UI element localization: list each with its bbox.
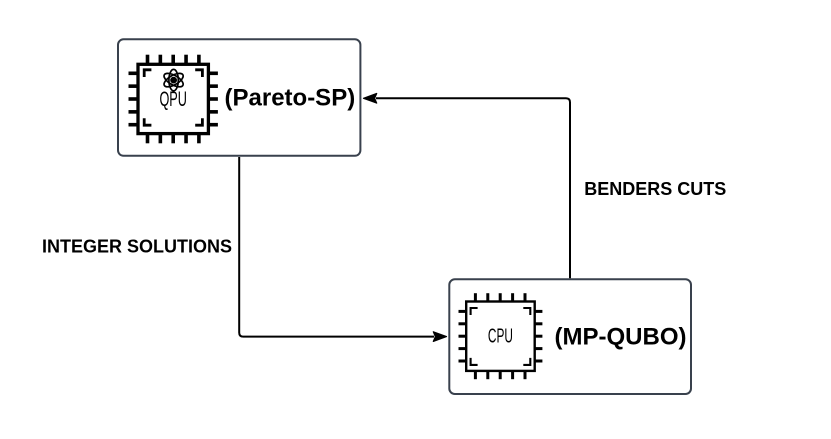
chip icon QPU (quantum processor U1) bbox=[129, 55, 218, 144]
svg-text:BENDERS CUTS: BENDERS CUTS bbox=[584, 179, 726, 199]
svg-text:QPU: QPU bbox=[159, 88, 187, 111]
svg-text:(Pareto-SP): (Pareto-SP) bbox=[225, 84, 356, 111]
svg-text:(MP-QUBO): (MP-QUBO) bbox=[555, 323, 687, 350]
svg-text:CPU: CPU bbox=[488, 326, 513, 348]
wire: benders cuts feedback (MP-QUBO top to Pareto-SP right) bbox=[364, 94, 571, 279]
svg-text:INTEGER SOLUTIONS: INTEGER SOLUTIONS bbox=[42, 237, 232, 257]
box Pareto-SP (QPU subproblem container) bbox=[118, 39, 360, 156]
box MP-QUBO (CPU master problem container) bbox=[449, 279, 691, 394]
wire: integer solutions feedback (Pareto-SP bottom to MP-QUBO left) bbox=[239, 157, 446, 341]
chip icon CPU (classical processor U2) bbox=[459, 293, 543, 379]
